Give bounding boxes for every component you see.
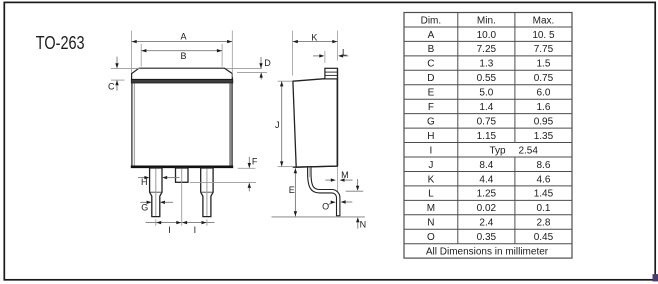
- dimension O arrows: [328, 203, 332, 205]
- dimension C extension lines: [111, 67, 140, 69]
- svg-text:D: D: [427, 73, 434, 84]
- svg-text:1.35: 1.35: [534, 131, 554, 142]
- svg-text:A: A: [180, 32, 186, 42]
- svg-text:0.35: 0.35: [477, 232, 497, 243]
- svg-text:I: I: [430, 145, 433, 156]
- svg-text:All Dimensions in millimeter: All Dimensions in millimeter: [426, 247, 549, 258]
- svg-text:2.8: 2.8: [536, 218, 550, 229]
- svg-text:D: D: [264, 58, 271, 68]
- dimension A line: [132, 41, 233, 43]
- svg-text:10. 5: 10. 5: [532, 30, 555, 41]
- svg-text:A: A: [428, 30, 435, 41]
- svg-text:B: B: [180, 51, 186, 61]
- svg-text:J: J: [275, 120, 280, 130]
- seating plane line: [272, 216, 365, 218]
- svg-text:0.1: 0.1: [536, 203, 550, 214]
- svg-text:Min.: Min.: [477, 15, 496, 26]
- front lead 2 (middle, cropped): [176, 168, 189, 182]
- svg-text:5.0: 5.0: [479, 88, 493, 99]
- svg-text:M: M: [427, 203, 435, 214]
- svg-text:I: I: [194, 225, 197, 235]
- front view tab dark band: [131, 80, 233, 83]
- dimension B line: [141, 50, 222, 52]
- svg-text:O: O: [322, 201, 329, 211]
- svg-text:I: I: [168, 225, 171, 235]
- svg-text:1.15: 1.15: [477, 131, 497, 142]
- side view lead: [309, 167, 338, 217]
- svg-text:F: F: [252, 157, 258, 167]
- front lead 1 (left): [150, 168, 162, 217]
- svg-text:O: O: [427, 232, 435, 243]
- svg-text:4.6: 4.6: [536, 174, 550, 185]
- svg-text:TO-263: TO-263: [36, 33, 85, 53]
- dimension H arrows: [138, 177, 145, 179]
- svg-text:G: G: [141, 202, 148, 212]
- dimension C arrows: [116, 57, 118, 68]
- svg-text:F: F: [428, 102, 434, 113]
- svg-text:7.75: 7.75: [534, 44, 554, 55]
- svg-text:0.45: 0.45: [534, 232, 554, 243]
- side view tab: [325, 68, 338, 79]
- dimension D arrows: [260, 57, 262, 68]
- dimension F extension lines: [238, 167, 256, 169]
- svg-text:C: C: [427, 59, 434, 70]
- svg-text:L: L: [428, 189, 434, 200]
- svg-text:H: H: [141, 177, 148, 187]
- front view body: [132, 83, 233, 168]
- svg-text:0.75: 0.75: [477, 116, 497, 127]
- dimension L extension line: [324, 51, 326, 63]
- svg-text:10.0: 10.0: [477, 30, 497, 41]
- svg-text:1.25: 1.25: [477, 189, 497, 200]
- svg-text:1.6: 1.6: [536, 102, 550, 113]
- svg-text:1.45: 1.45: [534, 189, 554, 200]
- svg-text:N: N: [427, 218, 434, 229]
- svg-text:Typ: Typ: [489, 145, 506, 156]
- dimension J extension lines: [278, 80, 293, 82]
- svg-text:4.4: 4.4: [479, 174, 493, 185]
- svg-text:0.75: 0.75: [534, 73, 554, 84]
- dimension J line: [281, 81, 283, 166]
- dimension F arrows: [248, 157, 250, 168]
- svg-text:6.0: 6.0: [536, 88, 550, 99]
- svg-text:0.02: 0.02: [477, 203, 497, 214]
- svg-text:H: H: [427, 131, 434, 142]
- svg-text:2.54: 2.54: [518, 145, 538, 156]
- dimension I line: [146, 222, 215, 224]
- svg-text:7.25: 7.25: [477, 44, 497, 55]
- svg-text:Dim.: Dim.: [421, 15, 442, 26]
- svg-text:E: E: [428, 88, 435, 99]
- svg-text:L: L: [342, 47, 347, 57]
- svg-text:K: K: [428, 174, 435, 185]
- side view body extension line for M: [337, 167, 339, 198]
- svg-text:1.5: 1.5: [536, 59, 550, 70]
- svg-text:B: B: [428, 44, 435, 55]
- svg-text:0.55: 0.55: [477, 73, 497, 84]
- dimension M arrows: [325, 179, 331, 181]
- svg-text:8.6: 8.6: [536, 160, 550, 171]
- svg-text:8.4: 8.4: [479, 160, 493, 171]
- svg-text:2.4: 2.4: [479, 218, 493, 229]
- svg-text:1.3: 1.3: [479, 59, 493, 70]
- front lead 3 (right): [201, 168, 213, 217]
- svg-text:Max.: Max.: [533, 15, 555, 26]
- svg-text:G: G: [427, 116, 435, 127]
- side view body bottom edge: [293, 166, 338, 167]
- svg-text:1.4: 1.4: [479, 102, 493, 113]
- purple corner mark: [653, 274, 658, 281]
- svg-text:0.95: 0.95: [534, 116, 554, 127]
- dimension E line: [294, 168, 296, 216]
- svg-text:K: K: [311, 33, 317, 43]
- dimension K line: [293, 41, 338, 43]
- dimension N bottom arrow: [357, 222, 359, 229]
- svg-text:E: E: [289, 185, 295, 195]
- dimension L arrows: [313, 55, 320, 57]
- dimension G arrows: [140, 201, 147, 203]
- dimension N top line: [346, 190, 364, 192]
- side view body: [293, 79, 338, 168]
- svg-text:N: N: [360, 219, 367, 229]
- dimension D extension lines: [226, 67, 262, 69]
- dimension A extension lines: [131, 31, 133, 73]
- svg-text:J: J: [428, 160, 433, 171]
- dimension K extension lines: [292, 31, 294, 76]
- svg-text:C: C: [108, 82, 115, 92]
- dimension B extension lines: [140, 44, 142, 67]
- front view metal tab: [132, 68, 233, 79]
- svg-text:M: M: [341, 170, 349, 180]
- dimension table grid: [404, 13, 572, 259]
